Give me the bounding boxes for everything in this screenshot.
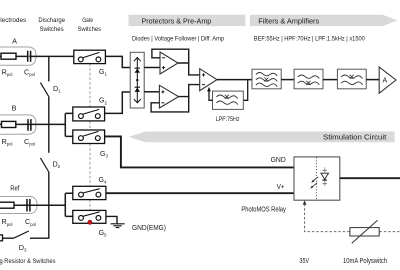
svg-text:Filters & Amplifiers: Filters & Amplifiers [258,17,319,26]
wire 35V dashed control [305,204,400,232]
header arrow: Stimulation Circuit [128,132,394,143]
gate switch G3 [73,130,105,144]
svg-text:Switches: Switches [78,26,102,33]
svg-text:Rpol: Rpol [2,67,13,77]
svg-text:35V: 35V [300,256,310,265]
wire U3 feedback loop [151,97,189,112]
wire electrode B [0,123,65,125]
svg-text:GND(EMG): GND(EMG) [132,223,166,232]
electrode A group outline [0,47,36,65]
svg-text:Diodes | Voltage Follower | Di: Diodes | Voltage Follower | Diff. Amp [132,36,225,42]
op-amp U3 (voltage follower, bottom) [159,85,178,108]
node closed indicator (red dot on G5) [88,220,92,224]
capacitor Cpol (Ref) [27,199,30,212]
svg-text:Electrodes: Electrodes [0,17,27,24]
wire D2 to Ref [48,172,50,205]
polyswitch F1 [350,220,379,243]
gate switch G4 [73,186,106,199]
wire Ref down to discharging resistor run [30,205,49,238]
svg-text:G1: G1 [99,69,107,77]
discharge switch D3 lever [14,231,29,238]
svg-text:G5: G5 [99,230,107,238]
arrowhead into diff amp [207,87,211,92]
header arrow: Filters & Amplifiers [250,15,397,26]
svg-text:G4: G4 [99,177,107,185]
ground GND(EMG) [111,224,125,228]
wire electrode A [0,55,74,57]
svg-text:BEF:55Hz | HPF:70Hz | LPF:1.5k: BEF:55Hz | HPF:70Hz | LPF:1.5kHz | x1500 [254,36,366,42]
svg-text:Stimulation Circuit: Stimulation Circuit [323,132,386,141]
svg-text:Protectors & Pre-Amp: Protectors & Pre-Amp [142,17,212,26]
diode D (upper, to +rail) [135,68,140,73]
svg-text:D2: D2 [53,159,61,169]
svg-text:G3: G3 [100,151,108,159]
gate switch G5 [73,210,106,223]
svg-text:B: B [12,104,17,113]
svg-text:Switches: Switches [40,26,65,33]
svg-text:Rpol: Rpol [2,137,13,147]
wire relay output [340,177,400,179]
wire HPF to LPF [323,79,337,81]
svg-text:V+: V+ [277,182,285,191]
wire diode box to follower U3 [144,91,159,93]
svg-text:G2: G2 [99,98,107,106]
wire LPF75 to diff amp (arrow) [209,91,213,101]
svg-text:GND: GND [271,155,286,164]
wire B to D2 [48,124,50,152]
protection diode box U1 [130,52,144,108]
wire U2 feedback loop [152,49,189,63]
resistor Rpol (Ref) [0,202,14,208]
discharge switch D1 lever [40,83,48,97]
discharging resistor [0,235,3,241]
filter BEF 55Hz [252,69,281,89]
wire LPF to amplifier [366,79,379,81]
wire feedback tap to LPF75 [243,80,247,101]
svg-text:D1: D1 [53,84,61,94]
capacitor Cpol (A) [28,51,31,62]
discharge switch D2 lever [40,158,48,172]
diode D (lower, to -rail) [135,87,140,92]
wire U2 output to diff amp [189,63,200,75]
wire to discharging resistor [3,237,14,239]
svg-text:Ref: Ref [10,183,20,192]
op-amp U4 (difference amplifier) [200,69,217,91]
column label: Discharge Switches [38,17,65,33]
wire U3 output to diff amp [189,85,200,97]
svg-text:Rpol: Rpol [2,217,13,227]
svg-text:PhotoMOS Relay: PhotoMOS Relay [241,205,286,214]
svg-text:10mA Polyswitch: 10mA Polyswitch [343,256,387,265]
svg-text:Discharge: Discharge [38,17,65,24]
wire electrode Ref [0,204,65,206]
gate switch G1 [74,50,106,63]
PhotoMOS relay box K1 [294,157,340,200]
svg-text:Cpol: Cpol [24,137,35,147]
wire G1 to diode box [105,56,130,67]
amplifier A (x1500) [379,67,396,93]
arrow down (negative rail) [134,99,141,103]
wire B split to G2/G3 [65,113,73,136]
capacitor Cpol (B) [28,119,31,131]
svg-text:Cpol: Cpol [24,67,35,77]
resistor Rpol (A) [1,53,16,59]
column label: Gate Switches [78,17,102,33]
isolation dotted divider [315,158,317,200]
wire G4 to relay V+ [106,192,294,194]
gate switch G2 [73,107,105,121]
wire diff amp output [217,79,252,81]
svg-text:LPF:75Hz: LPF:75Hz [216,116,240,123]
wire G2 to diode box [105,92,131,113]
wire rail vertical in diode box [136,58,138,103]
resistor Rpol (B) [2,121,16,127]
op-amp U2 (voltage follower, top) [160,52,178,74]
svg-text:A: A [382,78,387,85]
filter LPF 1.5kHz [337,69,366,89]
svg-text:D3: D3 [19,243,27,253]
svg-text:Gate: Gate [82,17,93,24]
node junction dot [136,79,138,81]
gate control dashed line [89,64,91,211]
svg-text:A: A [12,36,17,45]
wire Ref split to G4/G5 [65,193,73,216]
arrow up (positive rail) [134,58,141,62]
wire G3 to relay GND [105,136,294,167]
optocoupler light arrows [310,177,318,189]
filter LPF75 (feedback) [213,91,244,109]
wire BEF to HPF [281,79,294,81]
arrowhead into relay [303,200,307,205]
header bar: Protectors & Pre-Amp [129,15,246,26]
filter HPF 70Hz [294,69,323,89]
svg-text:Cpol: Cpol [25,217,36,227]
electrode B group outline [0,115,36,134]
wire diode box to follower U2 [144,67,160,69]
svg-text:g Resistor & Switches: g Resistor & Switches [0,258,56,265]
wire G5 to ground [106,216,117,223]
LED in relay [321,167,329,186]
wire D1 to B [48,97,50,125]
electrode Ref group outline [0,197,37,214]
wire discharge bus A to D1 [48,56,50,81]
